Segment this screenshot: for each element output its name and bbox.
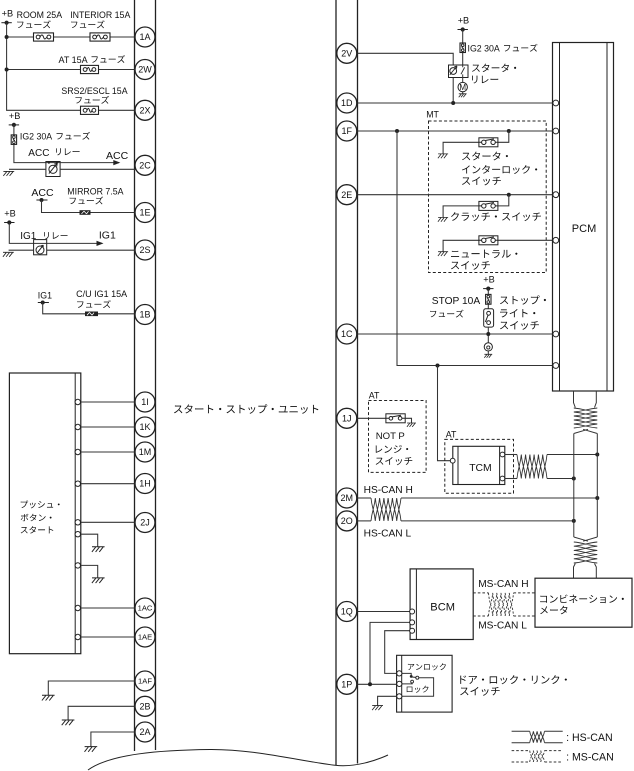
wire stop switch to stop lamp	[487, 327, 489, 343]
wire 2M (HS-CAN H)	[358, 497, 372, 499]
wire neutral switch to PCM	[498, 239, 553, 241]
svg-text:IG2 30A: IG2 30A	[468, 44, 500, 54]
PCM pin	[553, 331, 559, 337]
wire IG1 output with arrow	[47, 242, 102, 244]
junction 1P / BCM	[368, 682, 372, 686]
door lock pin 2	[397, 681, 402, 686]
svg-text:2C: 2C	[139, 161, 151, 171]
clutch switch	[479, 201, 498, 210]
terminal 2V	[337, 43, 357, 63]
harness stem above combination meter	[574, 564, 597, 579]
svg-text:HS-CAN L: HS-CAN L	[364, 528, 412, 539]
svg-text:: HS-CAN: : HS-CAN	[566, 732, 613, 744]
label starter relay	[472, 64, 516, 72]
wire push button to 1M	[81, 451, 136, 453]
svg-text:MS-CAN L: MS-CAN L	[478, 621, 527, 632]
wire IG1 relay coil to terminal 2S	[47, 249, 137, 251]
wire 1F row to PCM	[358, 130, 553, 132]
TCM pin (right lower)	[500, 476, 505, 481]
wire push button to 1AC	[81, 607, 136, 609]
TCM dashed box	[445, 439, 514, 493]
svg-text:2J: 2J	[140, 518, 150, 528]
svg-text:1K: 1K	[139, 422, 150, 432]
wire push button to 1AE	[81, 636, 136, 638]
wire starter interlock switch loop	[498, 131, 509, 142]
label combination meter	[540, 594, 624, 603]
wire 2B to ground	[68, 706, 136, 720]
relay IG1 (box with coil and switch)	[34, 240, 47, 255]
svg-text:NOT P: NOT P	[376, 431, 405, 442]
svg-text:IG1: IG1	[99, 230, 116, 242]
wire ACC relay coil to terminal 2C	[60, 168, 136, 170]
ground (clutch switch)	[438, 217, 448, 221]
svg-text:STOP 10A: STOP 10A	[432, 296, 481, 307]
svg-text:AT 15A: AT 15A	[59, 55, 88, 65]
svg-text:INTERIOR 15A: INTERIOR 15A	[70, 10, 130, 20]
fuse IG2 30A (starter, vertical)	[460, 43, 465, 53]
label push button start	[21, 500, 60, 508]
terminal 1D	[337, 93, 357, 113]
svg-text:ACC: ACC	[106, 150, 129, 162]
PCM pin	[553, 237, 559, 243]
svg-text:+B: +B	[2, 9, 14, 19]
CAN bus collector node	[574, 429, 598, 541]
door lock pin 1	[397, 671, 402, 676]
PCM pin	[553, 100, 559, 106]
arrowhead IG1	[97, 241, 104, 246]
wire 2O (HS-CAN L)	[358, 520, 372, 522]
wire 1J to NOT P range switch	[358, 417, 387, 419]
svg-text:+B: +B	[4, 209, 16, 219]
svg-text:C/U IG1 15A: C/U IG1 15A	[76, 289, 127, 299]
terminal 2J	[135, 513, 155, 533]
wire push button to 1I	[81, 401, 136, 403]
PCM pin	[553, 128, 559, 134]
svg-text:2W: 2W	[138, 65, 152, 75]
fuse ROOM 25A	[34, 33, 54, 41]
ground (push button 1)	[92, 547, 105, 552]
junction 1F / starter interlock switch	[507, 129, 511, 133]
svg-text:1F: 1F	[342, 126, 353, 136]
svg-text:BCM: BCM	[430, 602, 455, 614]
starter interlock switch	[479, 138, 498, 147]
junction 1F / AT branch	[395, 129, 399, 133]
svg-text:AT: AT	[446, 430, 457, 440]
wire 2A to ground	[91, 732, 136, 747]
terminal 1AF	[135, 671, 155, 691]
terminal 2A	[135, 722, 155, 742]
stop light switch (vertical)	[484, 309, 494, 327]
svg-text:: MS-CAN: : MS-CAN	[566, 752, 614, 764]
relay starter (box with coil and switch)	[449, 65, 469, 78]
terminal 1AC	[135, 598, 155, 618]
wire AT branch from 1F junction down and right to PCM	[397, 131, 553, 366]
starter motor M	[458, 82, 467, 91]
fuse SRS2/ESCL 15A	[81, 106, 99, 114]
terminal 1K	[135, 417, 155, 437]
wire +B to IG1 relay switch	[9, 223, 33, 244]
terminal 2O	[337, 511, 357, 531]
wire push button ground 1	[81, 534, 98, 547]
wire TCM right pins to harness	[505, 454, 517, 456]
svg-text:ACC: ACC	[28, 148, 49, 159]
twisted pair HS-CAN	[371, 498, 401, 521]
wire BCM to door lock common (via 1P junction)	[370, 622, 410, 684]
start-stop unit left connector bus	[135, 0, 156, 751]
twisted pair CAN harness (upper)	[574, 408, 598, 428]
junction CAN L (TCM)	[572, 477, 576, 481]
door lock pin 3	[397, 694, 402, 699]
door lock switch contacts	[402, 673, 412, 675]
BCM box	[410, 569, 473, 640]
svg-text:1I: 1I	[141, 397, 149, 407]
terminal 2E	[337, 185, 357, 205]
svg-text:2O: 2O	[341, 516, 353, 526]
NOT P range switch	[386, 414, 405, 423]
junction 1D / starter relay coil	[451, 101, 455, 105]
label unlock	[408, 663, 446, 670]
svg-text:M: M	[459, 83, 466, 92]
label door lock link switch	[460, 675, 567, 684]
label neutral switch	[451, 250, 517, 258]
junction HS-CAN L at collector	[572, 519, 576, 523]
wire 1A row	[7, 36, 135, 38]
svg-text:1E: 1E	[139, 208, 150, 218]
terminal 1I	[135, 392, 155, 412]
terminal 2W	[135, 60, 155, 80]
svg-text:1D: 1D	[341, 98, 353, 108]
TCM pin (left)	[450, 458, 455, 463]
combination meter box	[535, 578, 632, 627]
door lock link switch box	[397, 655, 453, 712]
fuse INTERIOR 15A	[90, 33, 110, 41]
fuse C/U IG1 15A (small)	[85, 312, 98, 317]
harness stem below PCM	[574, 391, 597, 408]
wire BCM to door lock unlock contact	[385, 631, 410, 674]
torn page cut line	[88, 749, 388, 770]
ground (1AF)	[42, 695, 55, 700]
wire push button ground 2	[81, 565, 98, 578]
wire 1C row to PCM	[358, 333, 553, 335]
BCM pin 1	[410, 609, 415, 614]
svg-text:1C: 1C	[341, 329, 353, 339]
label stop light switch	[500, 295, 546, 304]
svg-text:1A: 1A	[139, 32, 150, 42]
ground (IG1 relay coil)	[3, 252, 14, 256]
svg-text:1P: 1P	[341, 680, 352, 690]
twisted pair TCM CAN	[517, 455, 547, 479]
terminal 2B	[135, 696, 155, 716]
ground (2A)	[85, 747, 98, 752]
ground (starter interlock switch)	[438, 154, 448, 158]
stop light bulb	[484, 343, 492, 351]
wire from +B down to 2X row	[7, 23, 135, 111]
junction on +B feed at 2W row	[5, 68, 9, 72]
wire push button to 1K	[81, 426, 136, 428]
fuse AT 15A	[81, 65, 99, 73]
junction HS-CAN H at collector	[595, 496, 599, 500]
legend HS-CAN	[512, 731, 563, 742]
terminal 2M	[337, 488, 357, 508]
terminal 1Q	[337, 602, 357, 622]
junction CAN H (TCM)	[595, 453, 599, 457]
NOT P range switch dashed box	[369, 401, 427, 473]
wire 2V to starter relay coil	[358, 53, 454, 103]
wire 1Q to BCM	[358, 611, 410, 613]
wire push button to 2J	[81, 521, 136, 523]
wire switch to ground	[405, 418, 411, 423]
svg-text:1Q: 1Q	[341, 607, 353, 617]
wire TCM CAN L to collector	[547, 478, 573, 480]
svg-text:2A: 2A	[139, 727, 150, 737]
svg-text:SRS2/ESCL 15A: SRS2/ESCL 15A	[61, 86, 127, 96]
label lock	[407, 686, 429, 693]
wire ground to ACC relay coil	[9, 168, 46, 170]
MS-CAN dashed pair BCM to combination meter	[473, 593, 535, 616]
svg-text:1AF: 1AF	[138, 677, 152, 686]
label start-stop unit	[174, 404, 318, 414]
label starter interlock switch	[462, 152, 508, 161]
svg-text:PCM: PCM	[572, 223, 596, 235]
junction AT branch / TCM branch	[436, 364, 440, 368]
wire clutch switch loop	[498, 195, 509, 206]
svg-text:1B: 1B	[139, 310, 150, 320]
svg-text:1AC: 1AC	[138, 604, 153, 613]
ground (door lock switch)	[372, 706, 383, 711]
twisted pair MS-CAN (dashed)	[489, 593, 514, 616]
ground (neutral switch)	[438, 252, 448, 256]
junction 2E / clutch switch	[507, 193, 511, 197]
TCM box	[453, 446, 505, 484]
svg-text:IG1: IG1	[38, 290, 52, 300]
svg-text:2V: 2V	[341, 49, 352, 59]
wire 1P to door lock switch	[358, 683, 397, 685]
wire IG1 to C/U fuse to 1B	[43, 303, 136, 314]
svg-text:+B: +B	[9, 111, 21, 121]
junction on +B feed at 1A row	[5, 35, 9, 39]
svg-text:TCM: TCM	[469, 463, 492, 474]
wire ACC to mirror fuse to 1E	[42, 200, 137, 213]
terminal 1E	[135, 203, 155, 223]
twisted pair CAN harness (lower)	[574, 542, 598, 563]
neutral switch	[479, 236, 498, 245]
TCM pin (right upper)	[500, 452, 505, 457]
terminal 1AE	[135, 627, 155, 647]
wire +B through STOP fuse to stop light switch	[487, 289, 489, 309]
fuse IG2 30A (vertical)	[11, 135, 16, 145]
svg-text:1H: 1H	[139, 479, 151, 489]
svg-text:HS-CAN H: HS-CAN H	[364, 485, 413, 496]
PCM pin	[553, 363, 559, 369]
svg-text:2E: 2E	[341, 190, 352, 200]
svg-text:ACC: ACC	[31, 187, 54, 199]
svg-text:1J: 1J	[342, 414, 352, 424]
BCM pin 3	[410, 628, 415, 633]
wire ground to IG1 relay coil	[9, 249, 34, 251]
fuse STOP 10A (vertical)	[486, 294, 491, 304]
terminal 2C	[135, 155, 155, 175]
ground (ACC relay coil)	[3, 171, 14, 176]
ground (push button 2)	[92, 578, 105, 583]
wire ACC output with arrow	[60, 162, 119, 164]
svg-text:1M: 1M	[139, 447, 152, 457]
svg-text:+B: +B	[483, 275, 495, 285]
svg-text:2X: 2X	[139, 106, 150, 116]
terminal 1J	[337, 408, 357, 428]
wire +B through IG2 fuse to starter relay switch	[462, 30, 464, 66]
ground (stop light)	[484, 354, 492, 357]
wire door lock to ground	[378, 696, 397, 705]
PCM pin	[553, 192, 559, 198]
svg-text:IG2 30A: IG2 30A	[20, 131, 52, 141]
fuse MIRROR 7.5A (small)	[80, 210, 91, 215]
terminal 1B	[135, 305, 155, 325]
wire push button to 1H	[81, 483, 136, 485]
arrowhead ACC	[113, 160, 120, 165]
wire 2E row to PCM	[358, 194, 553, 196]
start-stop unit right connector bus	[336, 0, 358, 765]
terminal 1P	[337, 674, 357, 694]
wire bulb to ground	[487, 351, 489, 354]
terminal 2S	[135, 240, 155, 260]
legend MS-CAN	[512, 751, 563, 762]
wire TCM CAN H to collector	[547, 454, 596, 456]
wire 1AF to ground	[48, 681, 136, 695]
wire M to ground	[462, 92, 464, 94]
MT dashed group box	[429, 121, 547, 273]
label clutch switch	[451, 212, 541, 221]
push button start box	[9, 373, 80, 654]
terminal 1C	[337, 324, 357, 344]
svg-text:+B: +B	[458, 16, 470, 26]
junction 1C / stop light	[486, 332, 490, 336]
svg-text:MT: MT	[426, 110, 439, 120]
ground (starter motor)	[459, 94, 467, 97]
BCM pin 2	[410, 620, 415, 625]
svg-text:1AE: 1AE	[138, 633, 152, 642]
ground (NOT P range switch)	[407, 423, 416, 427]
svg-text:2S: 2S	[139, 245, 150, 255]
wire 2W row	[7, 69, 135, 71]
terminal 1M	[135, 442, 155, 462]
svg-text:MS-CAN H: MS-CAN H	[478, 579, 528, 590]
wire 1D row to PCM	[358, 102, 553, 104]
terminal 1F	[337, 121, 357, 141]
terminal 1H	[135, 474, 155, 494]
ground (2B)	[62, 720, 75, 725]
svg-text:2M: 2M	[341, 493, 354, 503]
svg-text:MIRROR 7.5A: MIRROR 7.5A	[67, 187, 123, 197]
wire TCM branch down to TCM pin	[438, 366, 451, 461]
svg-text:2B: 2B	[139, 702, 150, 712]
wire +B to ACC relay switch	[14, 125, 46, 163]
PCM module box	[553, 43, 614, 392]
relay ACC (box with coil and switch)	[46, 162, 60, 177]
svg-text:AT: AT	[369, 390, 380, 400]
terminal 2X	[135, 100, 155, 120]
terminal 1A	[135, 27, 155, 47]
svg-text:ROOM 25A: ROOM 25A	[17, 10, 63, 20]
